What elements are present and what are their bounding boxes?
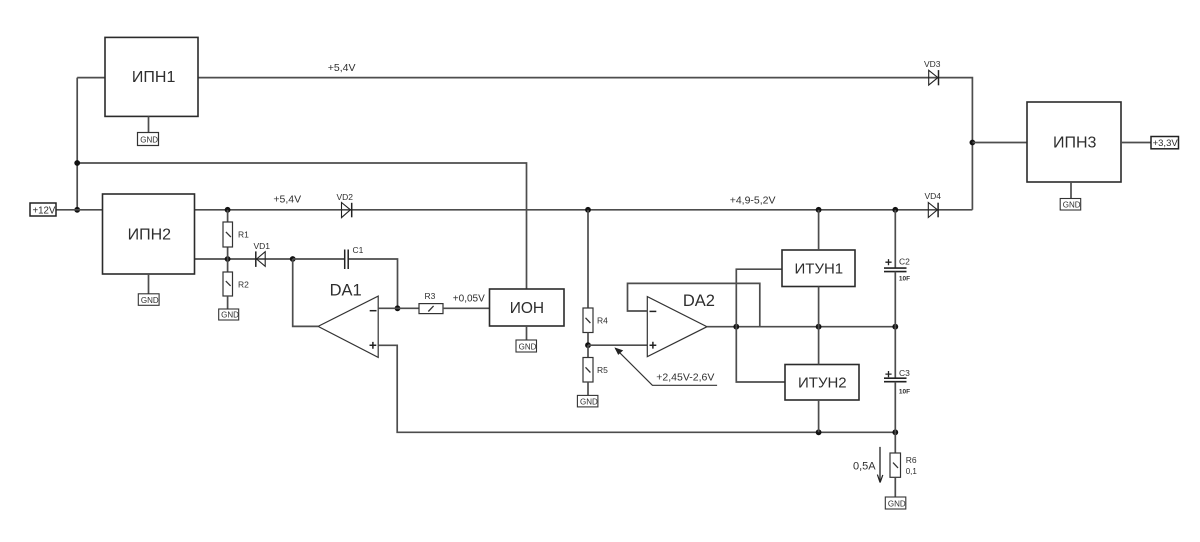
resistor R4 (583, 210, 608, 345)
svg-text:ИОН: ИОН (510, 300, 544, 317)
wire: DA2 feedback loop (628, 283, 760, 326)
svg-text:0,1: 0,1 (906, 467, 918, 476)
node: junction ITUN2 bottom on bus (816, 429, 822, 435)
svg-text:10F: 10F (899, 389, 910, 396)
node: junction R4 top (585, 207, 591, 213)
terminal +12V (30, 203, 56, 216)
current arrow 0,5A (853, 447, 883, 483)
svg-text:R6: R6 (906, 455, 917, 465)
svg-text:C1: C1 (353, 245, 364, 255)
svg-text:GND: GND (1063, 201, 1081, 210)
capacitor C2 (electrolytic) (884, 210, 910, 327)
block ITUN1 (782, 250, 855, 287)
svg-text:+5,4V: +5,4V (273, 193, 301, 205)
ground under R2 (219, 309, 239, 320)
wire: DA1 non-inverting input to bottom bus (378, 345, 895, 432)
block IPN2 (103, 194, 195, 274)
svg-text:+2,45V-2,6V: +2,45V-2,6V (656, 371, 714, 383)
svg-text:ИПН1: ИПН1 (132, 69, 176, 86)
node: DA1 inverting input node (395, 305, 401, 311)
wire: ITUN1 top to main bus (818, 210, 820, 250)
block IPN3 (1027, 102, 1121, 182)
op-amp DA1 (pointing left) (318, 282, 378, 358)
resistor R1 (223, 210, 249, 259)
svg-text:ИПН2: ИПН2 (128, 227, 172, 244)
svg-text:+0,05V: +0,05V (453, 293, 485, 304)
resistor R6 (890, 432, 917, 497)
svg-text:DA1: DA1 (330, 282, 362, 300)
svg-text:GND: GND (140, 135, 158, 144)
svg-text:R1: R1 (238, 230, 249, 240)
label +4,9-5,2V (730, 194, 776, 206)
svg-text:R3: R3 (425, 291, 436, 301)
node: junction C2 top (892, 207, 898, 213)
node: DA2 output node (733, 324, 739, 330)
wire: top +5,4V bus from IPN1 to corner right (198, 78, 972, 210)
ground under R5 (577, 395, 598, 407)
label +5,4V (top bus) (328, 62, 356, 74)
wire: divider node to DA2 non-inverting input (588, 344, 647, 346)
terminal +3,3V (1121, 137, 1179, 150)
svg-text:C2: C2 (899, 256, 910, 266)
svg-text:GND: GND (141, 296, 159, 305)
svg-text:+4,9-5,2V: +4,9-5,2V (730, 194, 776, 206)
svg-text:VD3: VD3 (924, 59, 941, 69)
node: junction ITUN1 top (816, 207, 822, 213)
wire: stub into IPN1 left side (77, 77, 105, 79)
svg-text:+12V: +12V (33, 205, 56, 216)
node: junction bottom bus to C3/R6 (892, 429, 898, 435)
diode VD4 (pointing right) (925, 191, 942, 218)
wire: ITUN2 bottom to bottom bus (818, 400, 820, 432)
op-amp DA2 (pointing right) (647, 292, 715, 357)
svg-text:VD1: VD1 (254, 241, 271, 251)
node: junction C2/C3 (892, 324, 898, 330)
wire: DA2 output bus (707, 326, 895, 328)
node: junction ITUN vertical on output bus (816, 324, 822, 330)
svg-text:+3,3V: +3,3V (1153, 138, 1179, 149)
ground under IPN2 (138, 274, 159, 305)
svg-text:ИТУН1: ИТУН1 (795, 260, 844, 277)
svg-text:0,5A: 0,5A (853, 461, 876, 473)
wire: DA1 inverting input to R3 (378, 307, 419, 309)
diode VD2 (pointing right) (337, 192, 354, 218)
node: junction on left bus at second bus (74, 160, 80, 166)
svg-text:10F: 10F (899, 276, 910, 283)
node: junction at +12V line (74, 207, 80, 213)
resistor R2 (223, 259, 249, 309)
svg-text:VD4: VD4 (925, 191, 942, 201)
svg-text:GND: GND (221, 311, 239, 320)
capacitor C3 (electrolytic) (884, 327, 910, 433)
svg-text:ИПН3: ИПН3 (1053, 135, 1097, 152)
diode VD1 (pointing left) (254, 241, 271, 267)
block ION (490, 289, 565, 326)
node: junction R1 top (225, 207, 231, 213)
svg-text:R4: R4 (597, 316, 608, 326)
block IPN1 (105, 37, 198, 116)
svg-text:GND: GND (580, 397, 598, 406)
svg-text:R2: R2 (238, 279, 249, 289)
resistor R3 (horizontal) (419, 291, 443, 313)
wire: ITUN1 bottom to ITUN2 top (818, 287, 820, 365)
svg-text:C3: C3 (899, 368, 910, 378)
svg-text:+5,4V: +5,4V (328, 62, 356, 74)
ground under ION (516, 326, 537, 352)
wire: feed into IPN3 (972, 142, 1027, 144)
node: junction R1/R2 (225, 256, 231, 262)
svg-text:GND: GND (888, 499, 906, 508)
label +0,05V (453, 293, 485, 304)
node: DA1 feedback node (290, 256, 296, 262)
svg-text:R5: R5 (597, 365, 608, 375)
wire: left vertical bus (76, 78, 78, 210)
wire: second horizontal bus to ION top (77, 163, 526, 289)
wire: +12V terminal to IPN2 (56, 209, 103, 211)
svg-text:VD2: VD2 (337, 192, 354, 202)
svg-text:GND: GND (519, 342, 537, 351)
block ITUN2 (785, 365, 859, 401)
wire: DA1 output to feedback node (293, 259, 318, 326)
wire: output node down to ITUN2 input (736, 327, 785, 382)
capacitor C1 (293, 245, 398, 308)
label +5,4V (main bus) (273, 193, 301, 205)
diode VD3 (pointing right) (924, 59, 941, 85)
node: R4/R5 divider node (585, 342, 591, 348)
node: junction feeding IPN3 (970, 140, 976, 146)
resistor R5 (583, 345, 608, 395)
ground under IPN3 (1060, 182, 1081, 210)
wire: output node up to ITUN1 input (736, 269, 782, 327)
svg-text:ИТУН2: ИТУН2 (798, 375, 847, 392)
wire: main +5,4V / +4,9-5,2V bus (195, 209, 973, 211)
ground under R6 (885, 497, 906, 509)
annotation +2,45V-2,6V with leader arrow (614, 347, 717, 385)
wire: IPN2 lower output to DA1 node (195, 258, 293, 260)
ground under IPN1 (138, 116, 159, 145)
svg-text:DA2: DA2 (683, 292, 715, 310)
wire: R3 to ION (443, 307, 490, 309)
